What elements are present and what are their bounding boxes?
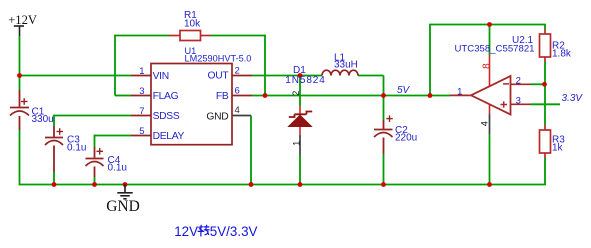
svg-text:220u: 220u (395, 132, 417, 143)
svg-text:1k: 1k (552, 143, 564, 154)
svg-text:5: 5 (139, 126, 144, 137)
svg-text:FB: FB (216, 91, 229, 102)
svg-text:+12V: +12V (8, 13, 37, 27)
svg-text:SDSS: SDSS (153, 111, 180, 122)
svg-text:6: 6 (235, 86, 240, 97)
svg-text:330u: 330u (32, 114, 54, 125)
svg-text:1: 1 (457, 86, 462, 97)
svg-text:2: 2 (291, 91, 301, 96)
svg-text:VIN: VIN (153, 71, 169, 82)
svg-text:LM2590HVT-5.0: LM2590HVT-5.0 (185, 54, 252, 64)
svg-text:1N5824: 1N5824 (285, 75, 325, 86)
svg-text:2: 2 (235, 66, 240, 77)
svg-text:UTC358_C557821: UTC358_C557821 (455, 43, 535, 54)
svg-text:8: 8 (481, 63, 492, 69)
svg-text:FLAG: FLAG (153, 91, 179, 102)
svg-text:4: 4 (479, 121, 489, 126)
svg-text:3: 3 (139, 86, 144, 97)
svg-text:5V/3.3V: 5V/3.3V (210, 224, 258, 239)
svg-text:33uH: 33uH (334, 60, 358, 71)
svg-text:OUT: OUT (208, 71, 230, 82)
svg-text:10k: 10k (184, 18, 201, 29)
svg-text:DELAY: DELAY (153, 131, 185, 142)
svg-text:1: 1 (291, 141, 301, 146)
svg-text:7: 7 (139, 106, 144, 117)
svg-text:1: 1 (139, 66, 144, 77)
svg-text:12V: 12V (174, 224, 198, 239)
svg-text:0.1u: 0.1u (108, 163, 127, 174)
svg-text:GND: GND (206, 111, 228, 122)
svg-text:1.8k: 1.8k (552, 49, 572, 60)
svg-text:0.1u: 0.1u (67, 142, 86, 153)
svg-text:3.3V: 3.3V (562, 93, 584, 104)
svg-text:GND: GND (106, 198, 140, 215)
svg-text:3: 3 (516, 95, 521, 106)
svg-text:4: 4 (235, 105, 240, 116)
svg-text:5V: 5V (397, 85, 411, 96)
svg-text:2: 2 (516, 75, 521, 86)
